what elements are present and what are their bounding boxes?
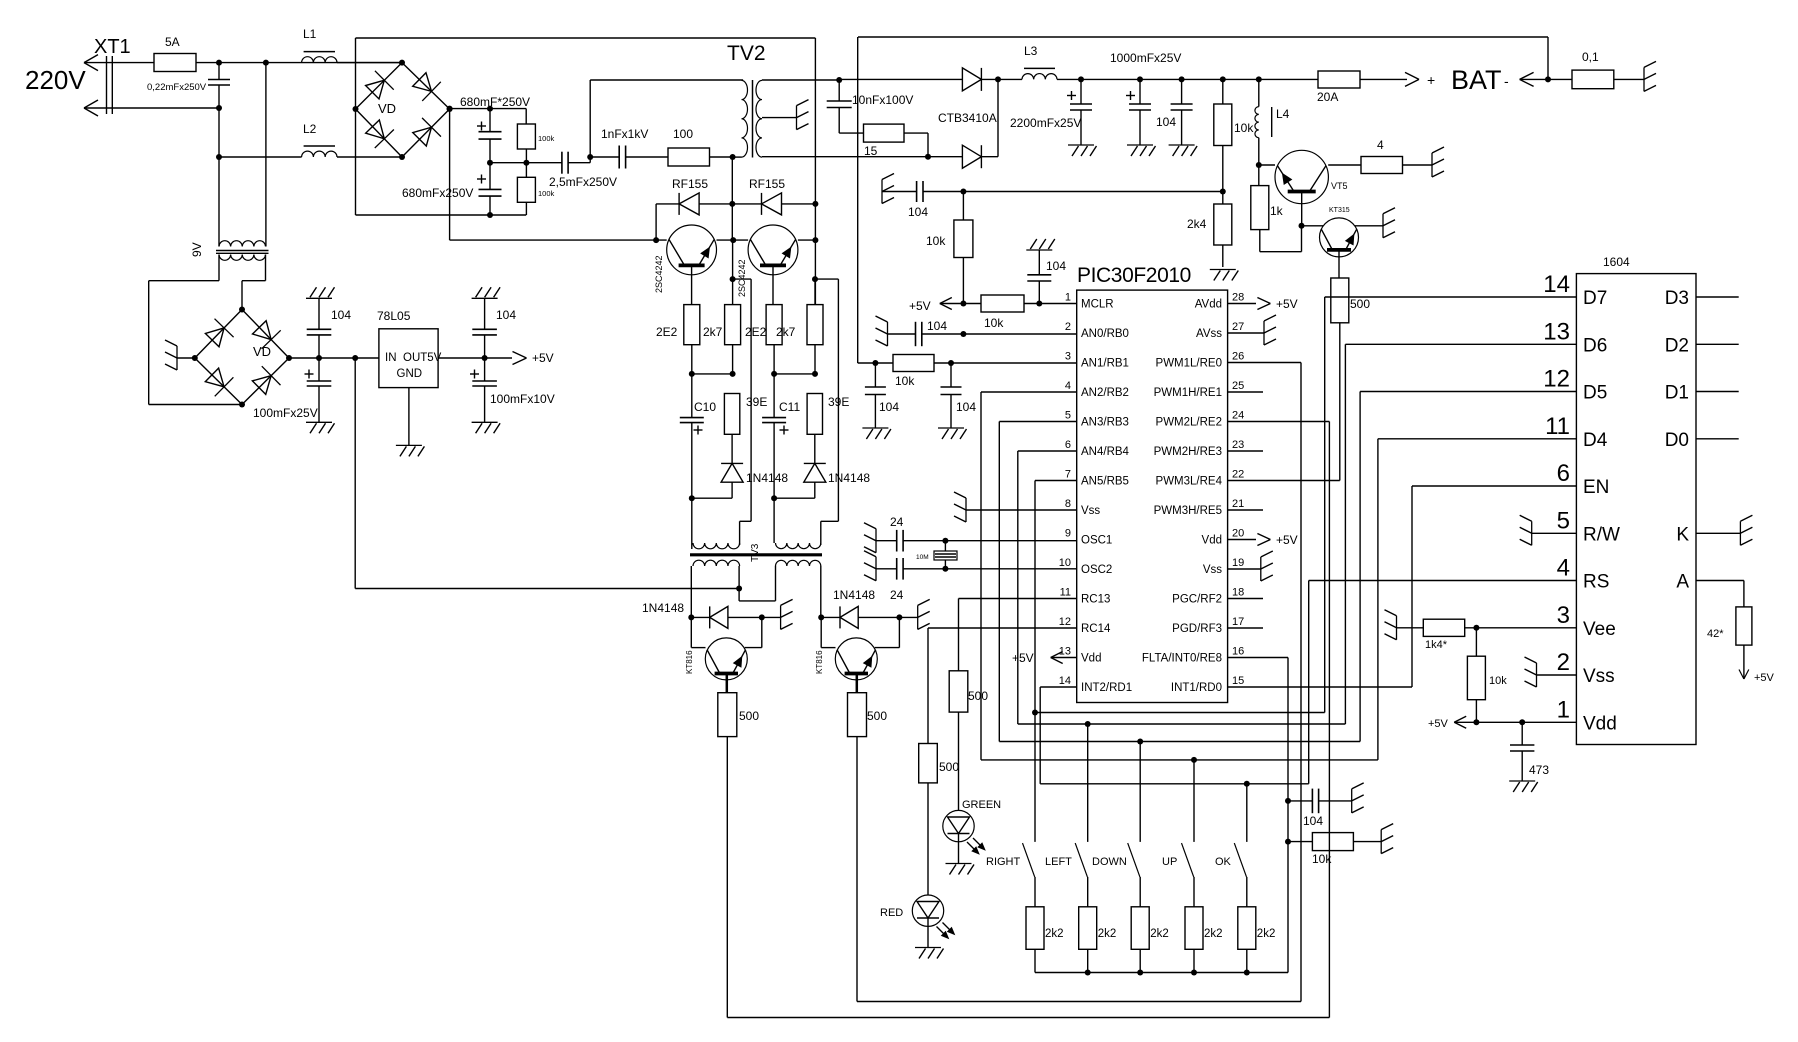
- svg-text:D5: D5: [1583, 383, 1607, 404]
- svg-text:23: 23: [1232, 439, 1244, 451]
- svg-text:L3: L3: [1024, 44, 1038, 58]
- diode CTB3410A upper: [962, 68, 981, 91]
- svg-text:1: 1: [1557, 696, 1570, 723]
- transformer TV3 core: [690, 553, 822, 556]
- svg-text:28: 28: [1232, 292, 1244, 304]
- transistor base row wire: [449, 109, 451, 241]
- svg-text:6: 6: [1557, 460, 1570, 487]
- resistor 4: [1328, 164, 1361, 166]
- inductor L3: [998, 78, 1022, 80]
- svg-text:39E: 39E: [746, 395, 767, 409]
- svg-text:14: 14: [1543, 271, 1570, 298]
- svg-text:100k: 100k: [538, 134, 555, 143]
- svg-text:4: 4: [1065, 380, 1071, 392]
- svg-text:+5V: +5V: [532, 351, 554, 365]
- inductor L1: [302, 57, 337, 63]
- svg-text:42*: 42*: [1707, 628, 1724, 640]
- LED GREEN resistor 500: [949, 671, 968, 712]
- ground chassis at 4: [1431, 153, 1433, 177]
- resistor 42*: [1736, 607, 1752, 645]
- wire KT816#1 to pin24 bus: [726, 737, 728, 1018]
- svg-text:RC13: RC13: [1081, 594, 1110, 606]
- capacitor 104 at pin16 net: [1285, 798, 1291, 804]
- svg-text:PWM2H/RE3: PWM2H/RE3: [1154, 446, 1222, 458]
- wire RC13 pin11 to GREEN led: [959, 598, 1077, 600]
- ground chassis at 9V bridge: [177, 357, 195, 359]
- switch LEFT: [1087, 724, 1089, 842]
- svg-text:104: 104: [908, 205, 928, 219]
- svg-text:AN0/RB0: AN0/RB0: [1081, 328, 1129, 340]
- wire FLTA pin16: [1228, 657, 1288, 659]
- svg-text:AN4/RB4: AN4/RB4: [1081, 446, 1130, 458]
- wire bridge+ to caps: [450, 108, 490, 110]
- capacitor 104 at 78L05 output: [484, 335, 486, 358]
- negative rail loop: right edge / diode rail: [814, 38, 816, 305]
- wire D4: [1378, 438, 1577, 440]
- switch RIGHT: [1034, 713, 1036, 842]
- svg-text:1k4*: 1k4*: [1425, 639, 1448, 651]
- svg-text:OUT5V: OUT5V: [403, 352, 442, 364]
- bridge rectifier VD (9V): [195, 310, 242, 359]
- wire 220V bottom: [84, 107, 219, 109]
- button bus LEFT (pin6/D6): [1018, 723, 1346, 725]
- resistor 1k: [1258, 165, 1260, 186]
- stub D2: [1696, 343, 1739, 345]
- svg-text:+5V: +5V: [1428, 718, 1449, 730]
- svg-text:INT2/RD1: INT2/RD1: [1081, 682, 1132, 694]
- connector XT1: [106, 56, 108, 114]
- wire caps top to 100k chain: [490, 108, 526, 110]
- wire D6: [1345, 343, 1576, 345]
- transistor KT315: [1302, 225, 1324, 227]
- TV3 sec1 right lead: [738, 566, 740, 601]
- col D dots: [812, 276, 818, 282]
- wire down to 9V primary: [218, 157, 220, 247]
- svg-text:24: 24: [1232, 410, 1244, 422]
- svg-text:9V: 9V: [190, 242, 204, 257]
- svg-text:13: 13: [1543, 318, 1570, 345]
- diode 1N4148 #2 (under 39E): [804, 462, 826, 464]
- svg-text:+5V: +5V: [1012, 651, 1034, 665]
- diode CTB3410A lower: [928, 156, 962, 158]
- svg-text:10: 10: [1059, 557, 1071, 569]
- 9V secondary right lead: [265, 255, 267, 281]
- svg-text:104: 104: [927, 319, 947, 333]
- caps mid junction row: [487, 160, 493, 166]
- svg-text:5A: 5A: [165, 35, 180, 49]
- ground chassis at 0,1: [1643, 67, 1645, 91]
- svg-text:78L05: 78L05: [377, 309, 411, 323]
- svg-text:2k2: 2k2: [1045, 928, 1064, 940]
- svg-text:20A: 20A: [1317, 90, 1338, 104]
- resistor 2k7 #1: [725, 305, 741, 345]
- svg-text:11: 11: [1545, 413, 1570, 440]
- svg-text:AVdd: AVdd: [1195, 299, 1222, 311]
- transformer TV3 secondary 1: [693, 560, 740, 566]
- wire Vdd LCD +5V: [1454, 721, 1576, 723]
- 78L05 output wire: [438, 357, 512, 359]
- capacitor 104 output: [1181, 79, 1183, 104]
- svg-text:0,22mFx250V: 0,22mFx250V: [147, 82, 207, 93]
- transformer TV3 secondary 2: [776, 560, 821, 566]
- svg-text:104: 104: [1156, 115, 1176, 129]
- wire PWM1L pin26: [1228, 362, 1301, 364]
- svg-text:FLTA/INT0/RE8: FLTA/INT0/RE8: [1142, 653, 1222, 665]
- ground chassis at Vss LCD: [1537, 674, 1577, 676]
- fuse 5A: [154, 54, 196, 72]
- 78L05 ground lead: [408, 388, 410, 446]
- wire RS: [1309, 580, 1577, 582]
- stub PGD pin17: [1228, 627, 1263, 629]
- diode RF155 #1: [678, 193, 680, 215]
- wire EN: [1412, 485, 1576, 487]
- TV3 primary 1 left lead: [691, 498, 693, 543]
- col B: 100-ohm junction down to 2k7 #1: [731, 157, 733, 204]
- LED RED resistor 500: [919, 744, 938, 783]
- svg-text:XT1: XT1: [94, 36, 131, 58]
- crystal oscillator network: [875, 529, 877, 553]
- stub PWM1H pin25: [1228, 391, 1263, 393]
- wire PWM2L pin24: [1228, 421, 1330, 423]
- capacitor 0,22mFx250V: [218, 63, 220, 80]
- button bus OK (pin14/RS): [1040, 783, 1309, 785]
- Vee network: ground + 1k4*: [1396, 616, 1398, 640]
- wire AN3 pin5: [999, 421, 1076, 423]
- svg-text:INT1/RD0: INT1/RD0: [1171, 682, 1222, 694]
- svg-text:24: 24: [890, 588, 904, 602]
- svg-text:MCLR: MCLR: [1081, 299, 1114, 311]
- arrow to BAT+: [1405, 72, 1419, 79]
- svg-text:RC14: RC14: [1081, 623, 1111, 635]
- svg-text:680mFx250V: 680mFx250V: [402, 186, 473, 200]
- svg-text:4: 4: [1557, 555, 1570, 582]
- svg-text:D4: D4: [1583, 430, 1608, 451]
- ground at RED led: [927, 926, 929, 947]
- svg-text:26: 26: [1232, 351, 1244, 363]
- svg-text:2200mFx25V: 2200mFx25V: [1010, 116, 1081, 130]
- wire BAT- sense: top route: [836, 77, 842, 83]
- LED RED: [912, 895, 943, 926]
- svg-text:100k: 100k: [538, 189, 555, 198]
- svg-text:10k: 10k: [1234, 121, 1254, 135]
- svg-text:8: 8: [1065, 498, 1071, 510]
- svg-text:-: -: [1504, 73, 1509, 89]
- switch OK: [1246, 784, 1248, 842]
- svg-text:12: 12: [1543, 366, 1570, 393]
- svg-text:CTB3410A: CTB3410A: [938, 111, 997, 125]
- wire AN5 pin7: [1035, 480, 1077, 482]
- svg-text:AN1/RB1: AN1/RB1: [1081, 358, 1129, 370]
- svg-text:+5V: +5V: [1276, 533, 1298, 547]
- wire from 78L05 input: [736, 586, 742, 592]
- svg-text:1nFx1kV: 1nFx1kV: [601, 127, 648, 141]
- svg-text:GND: GND: [397, 368, 423, 380]
- ground chassis Vss pin19: [1228, 568, 1261, 570]
- TV2 secondary center tap to ground: [762, 117, 797, 119]
- svg-text:RED: RED: [880, 907, 903, 919]
- transformer TV3 primary 1: [693, 543, 740, 549]
- junction to TV2 primary: [589, 80, 591, 163]
- svg-text:2: 2: [1557, 649, 1570, 676]
- capacitor 104 at AN1 left: [874, 363, 876, 387]
- wire D5: [1360, 391, 1576, 393]
- TV2 secondary top lead: [762, 79, 839, 81]
- svg-text:27: 27: [1232, 321, 1244, 333]
- svg-text:1N4148: 1N4148: [828, 471, 870, 485]
- svg-text:4: 4: [1377, 138, 1384, 152]
- svg-text:EN: EN: [1583, 477, 1609, 498]
- capacitor 104 at 78L05 input: [318, 335, 320, 358]
- wire INT2 pin14: [1040, 686, 1077, 688]
- svg-text:18: 18: [1232, 587, 1244, 599]
- svg-text:UP: UP: [1162, 856, 1177, 868]
- svg-text:21: 21: [1232, 498, 1244, 510]
- svg-text:VT5: VT5: [1331, 181, 1348, 191]
- capacitor 1000mFx25V: [1126, 95, 1135, 97]
- svg-text:104: 104: [1303, 814, 1323, 828]
- ground chassis at KT315 emitter: [1355, 225, 1383, 227]
- capacitor 100mFx10V at 78L05 output: [470, 373, 479, 375]
- resistor 10k at pin16 net: [1285, 839, 1291, 845]
- svg-text:RS: RS: [1583, 572, 1609, 593]
- capacitor C10: [691, 374, 693, 418]
- svg-text:Vdd: Vdd: [1583, 713, 1617, 734]
- switch DOWN: [1139, 742, 1141, 842]
- svg-text:500: 500: [968, 689, 988, 703]
- arrow +5V output: [513, 352, 527, 359]
- capacitor 2200mFx25V: [1067, 95, 1076, 97]
- junction 100/TV2 primary bottom: [710, 156, 733, 158]
- wire to L2 row: [218, 108, 220, 157]
- transistor KT816 #2: [820, 617, 822, 647]
- ground chassis at KT816 #1: [762, 616, 781, 618]
- svg-text:BAT: BAT: [1451, 65, 1502, 95]
- resistor 39E #1: [724, 394, 739, 435]
- capacitor 104 at AN0: [888, 333, 916, 335]
- svg-text:L2: L2: [303, 122, 317, 136]
- ground chassis AVss pin27: [1228, 332, 1264, 334]
- wire AN1 row: [858, 362, 893, 364]
- negative rail loop: bottom row: [356, 214, 527, 216]
- wire RC14 pin12 to RED led: [928, 627, 1077, 629]
- svg-text:15: 15: [864, 144, 878, 158]
- wire 220V top: [84, 62, 154, 64]
- svg-text:Vee: Vee: [1583, 619, 1616, 640]
- svg-text:104: 104: [331, 308, 351, 322]
- ground/104/10k row at battery sense: [881, 180, 883, 204]
- svg-text:10k: 10k: [1312, 852, 1332, 866]
- svg-text:7: 7: [1065, 469, 1071, 481]
- capacitor C11: [773, 374, 775, 418]
- wire 500 to pin22: [1339, 323, 1341, 481]
- svg-text:10k: 10k: [1489, 675, 1507, 687]
- svg-text:500: 500: [739, 709, 759, 723]
- resistor 15: [864, 124, 905, 142]
- resistor 0,1: [1548, 78, 1572, 80]
- resistor 10k MCLR: [940, 303, 981, 305]
- button bus UP (pin4/D4): [981, 759, 1378, 761]
- svg-text:+5V: +5V: [909, 299, 931, 313]
- resistor 2k7 #2: [814, 279, 816, 305]
- wire INT1 pin15 to EN: [1228, 686, 1412, 688]
- inductor L2: [219, 156, 302, 158]
- capacitor 680mF*250V: [477, 125, 486, 127]
- svg-text:104: 104: [956, 400, 976, 414]
- svg-text:C10: C10: [694, 400, 716, 414]
- svg-text:AN3/RB3: AN3/RB3: [1081, 417, 1129, 429]
- resistor 100: [668, 148, 710, 166]
- svg-text:2E2: 2E2: [656, 325, 678, 339]
- svg-text:PWM3L/RE4: PWM3L/RE4: [1156, 476, 1223, 488]
- transistor VT5: [1256, 162, 1262, 168]
- mid junction rows: [691, 345, 693, 374]
- svg-text:1000mFx25V: 1000mFx25V: [1110, 51, 1181, 65]
- LED RED emission arrows: [937, 927, 947, 937]
- capacitor 10nFx100V: [838, 80, 840, 101]
- svg-text:PWM1H/RE1: PWM1H/RE1: [1154, 387, 1222, 399]
- svg-text:15: 15: [1232, 675, 1244, 687]
- svg-text:2k2: 2k2: [1257, 928, 1276, 940]
- diode 1N4148 #1 (under 39E): [721, 462, 743, 464]
- svg-text:2k2: 2k2: [1098, 928, 1117, 940]
- transistor KT816 #1: [690, 617, 692, 647]
- wire L1 to bridge: [337, 62, 402, 64]
- resistor 10k at Vee: [1475, 628, 1477, 656]
- svg-text:Vss: Vss: [1203, 564, 1222, 576]
- arrow from BAT-: [1520, 72, 1534, 79]
- TV3 sec1 left lead down to 1N4148: [690, 566, 692, 617]
- svg-text:L1: L1: [303, 27, 317, 41]
- svg-text:2k4: 2k4: [1187, 217, 1207, 231]
- button bus RIGHT (pin7/D7): [1032, 710, 1038, 716]
- svg-text:C11: C11: [779, 400, 800, 414]
- wire AN2 pin4: [981, 391, 1077, 393]
- svg-text:KT315: KT315: [1329, 207, 1350, 214]
- svg-text:9: 9: [1065, 528, 1071, 540]
- svg-text:AN5/RB5: AN5/RB5: [1081, 476, 1129, 488]
- svg-text:K: K: [1676, 524, 1689, 545]
- svg-text:IN: IN: [385, 352, 397, 364]
- svg-text:104: 104: [496, 308, 516, 322]
- svg-text:500: 500: [1350, 297, 1370, 311]
- ground chassis at R/W: [1532, 532, 1577, 534]
- wire TV3 primary1 right jog: [733, 278, 752, 280]
- svg-text:22: 22: [1232, 469, 1244, 481]
- svg-text:D2: D2: [1665, 335, 1689, 356]
- ground at GREEN led: [958, 842, 960, 864]
- svg-text:Vdd: Vdd: [1081, 653, 1101, 665]
- stub D0: [1696, 438, 1739, 440]
- svg-text:1604: 1604: [1603, 255, 1630, 269]
- svg-text:2k7: 2k7: [776, 325, 796, 339]
- svg-text:PWM1L/RE0: PWM1L/RE0: [1156, 358, 1222, 370]
- resistor 100k upper: [517, 124, 535, 149]
- svg-text:14: 14: [1059, 675, 1071, 687]
- resistor 10k to MCLR divider: [954, 220, 973, 258]
- svg-text:19: 19: [1232, 557, 1244, 569]
- svg-text:Vss: Vss: [1081, 505, 1100, 517]
- negative rail loop: top edge: [356, 37, 816, 39]
- inductor L4: [1258, 79, 1260, 106]
- RF155 diode row: [655, 204, 657, 240]
- svg-text:2k2: 2k2: [1150, 928, 1169, 940]
- svg-text:RF155: RF155: [749, 177, 785, 191]
- svg-text:PWM3H/RE5: PWM3H/RE5: [1154, 505, 1222, 517]
- svg-text:PGC/RF2: PGC/RF2: [1172, 594, 1222, 606]
- svg-text:100: 100: [673, 127, 693, 141]
- svg-text:1N4148: 1N4148: [833, 588, 875, 602]
- svg-text:39E: 39E: [828, 395, 849, 409]
- LED GREEN emission arrows: [967, 842, 977, 852]
- stub D3: [1696, 296, 1739, 298]
- svg-text:12: 12: [1059, 616, 1071, 628]
- TV2 secondary bottom lead: [762, 156, 928, 158]
- svg-text:2k2: 2k2: [1204, 928, 1223, 940]
- capacitor 100mFx25V at 78L05 input: [305, 373, 314, 375]
- crystal 10M: [944, 541, 946, 569]
- negative rail loop: left edge: [355, 38, 357, 215]
- svg-text:3: 3: [1557, 602, 1570, 629]
- svg-text:2: 2: [1065, 321, 1071, 333]
- wire AN4 pin6: [1018, 450, 1077, 452]
- svg-text:+5V: +5V: [1754, 672, 1775, 684]
- svg-text:RIGHT: RIGHT: [986, 856, 1021, 868]
- capacitor 104 at AN1 right: [950, 363, 952, 387]
- svg-text:16: 16: [1232, 646, 1244, 658]
- TV3 sec2 right lead: [820, 566, 822, 617]
- resistor 10k charge: [1222, 79, 1224, 104]
- ground chassis at AN0: [887, 322, 889, 346]
- svg-text:D0: D0: [1665, 430, 1689, 451]
- wire A to 42* resistor: [1696, 580, 1744, 582]
- svg-text:100mFx10V: 100mFx10V: [490, 392, 555, 406]
- svg-text:2SC4242: 2SC4242: [654, 255, 664, 293]
- svg-text:10k: 10k: [895, 374, 915, 388]
- svg-text:OSC2: OSC2: [1081, 564, 1112, 576]
- +5V arrow Vdd pin20: [1228, 539, 1256, 541]
- wire 78L05 input feed: [354, 358, 356, 589]
- svg-text:Vss: Vss: [1583, 666, 1615, 687]
- svg-text:10nFx100V: 10nFx100V: [852, 93, 913, 107]
- TV3 primary 2 left lead: [773, 498, 775, 543]
- svg-text:100mFx25V: 100mFx25V: [253, 406, 318, 420]
- capacitor 2,5mFx250V: [526, 162, 562, 164]
- svg-text:PIC30F2010: PIC30F2010: [1077, 264, 1191, 287]
- svg-text:5: 5: [1065, 410, 1071, 422]
- diode RF155 #2: [732, 203, 761, 205]
- button bus DOWN (pin5/D5): [999, 741, 1360, 743]
- svg-text:OSC1: OSC1: [1081, 535, 1112, 547]
- svg-text:D7: D7: [1583, 288, 1607, 309]
- fuse 20A: [1318, 71, 1360, 88]
- svg-text:25: 25: [1232, 380, 1244, 392]
- LED GREEN: [943, 810, 974, 841]
- svg-text:473: 473: [1529, 763, 1549, 777]
- resistor 500 KT816 #2: [856, 674, 859, 693]
- svg-text:220V: 220V: [25, 65, 86, 95]
- ground chassis at KT816 #2: [899, 616, 917, 618]
- LCD module 1604: [1576, 274, 1696, 745]
- regulator 78L05: [379, 329, 438, 388]
- ground chassis at K: [1696, 532, 1740, 534]
- svg-text:6: 6: [1065, 439, 1071, 451]
- svg-text:20: 20: [1232, 528, 1244, 540]
- svg-text:500: 500: [939, 760, 959, 774]
- svg-text:AVss: AVss: [1196, 328, 1222, 340]
- svg-text:10M: 10M: [916, 554, 929, 561]
- wire KT816#2 to pin26 bus: [856, 737, 858, 1002]
- resistor 2E2 #2: [772, 265, 774, 304]
